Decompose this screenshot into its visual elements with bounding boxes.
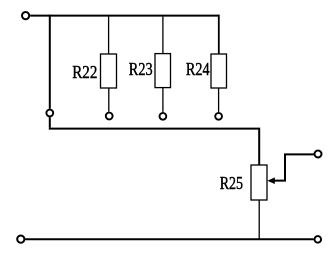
svg-text:R24: R24 (186, 59, 210, 79)
wire R24 top lead (rail corner) (218, 15, 220, 54)
terminal below R24 (215, 113, 222, 120)
terminal below R22 (106, 113, 113, 120)
wire R22 top lead (108, 17, 110, 54)
terminal bottom-right (315, 236, 322, 243)
terminal bottom-left (17, 236, 24, 243)
wire left terminal to bus corner (49, 117, 51, 127)
wire R24 bottom lead (218, 88, 220, 112)
terminal below R23 (160, 113, 167, 120)
wire R23 bottom lead (162, 88, 164, 112)
potentiometer R25 body (251, 165, 267, 200)
wire top rail (30, 15, 219, 17)
terminal wiper (315, 151, 322, 158)
wire wiper path (274, 154, 314, 180)
wire left drop (top rail to terminal) (49, 15, 51, 109)
wire R25 bottom lead (258, 200, 260, 239)
svg-text:R25: R25 (220, 173, 243, 193)
resistor R22 (101, 54, 117, 88)
terminal inline left (46, 110, 53, 117)
resistor R23 (155, 54, 171, 88)
svg-text:R22: R22 (72, 62, 97, 82)
wire bottom rail (25, 238, 314, 240)
terminal top-left input (22, 12, 29, 19)
resistor R24 (211, 54, 227, 88)
wiper arrowhead R25 (267, 177, 274, 184)
svg-text:R23: R23 (129, 59, 153, 79)
wire R22 bottom lead (108, 88, 110, 112)
wire middle bus to R25 top (49, 129, 259, 165)
wire R23 top lead (162, 17, 164, 54)
